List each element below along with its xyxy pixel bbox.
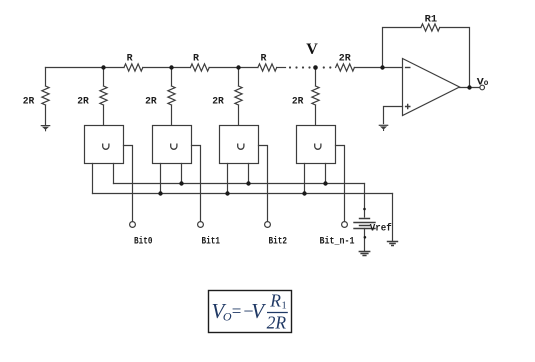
wire box left bottom pin x=238.5 xyxy=(227,164,229,194)
wire box left bottom pin x=315.5 xyxy=(304,164,306,194)
op-amp U1 triangle xyxy=(403,59,460,116)
battery bottom pin dot xyxy=(364,236,367,239)
junction upper bus box4 pin xyxy=(323,181,327,185)
op-amp plus symbol xyxy=(406,104,410,108)
wire node branch drop x=238.5 xyxy=(238,68,240,87)
resistor 2R at x=103.5 xyxy=(100,86,107,105)
ground (arrow) under leftmost 2R xyxy=(41,125,51,131)
wire 2R to switch box x=103.5 xyxy=(103,105,105,126)
svg-text:2R: 2R xyxy=(145,96,157,107)
node output xyxy=(467,85,471,89)
svg-text:Bit1: Bit1 xyxy=(202,235,221,247)
terminal circle Vo xyxy=(480,85,485,90)
ground (3-bar) right of battery xyxy=(388,242,398,246)
wire upper bus (to Vref) xyxy=(114,183,365,185)
svg-text:o: o xyxy=(484,79,489,88)
wire node branch drop x=315.5 xyxy=(315,68,317,87)
wire box left bottom pin x=171.5 xyxy=(160,164,162,194)
wire left 2R to ground xyxy=(45,105,47,124)
wire box right bottom pin x=103.5 xyxy=(113,164,115,184)
svg-text:Vref: Vref xyxy=(370,223,392,235)
junction upper bus box2 pin xyxy=(179,181,183,185)
node V xyxy=(313,65,318,70)
switch box glyph (rotated C) x=171.5 xyxy=(171,144,177,149)
wire box left bottom pin x=103.5 xyxy=(92,164,94,194)
wire dotted continuation left of node V xyxy=(289,66,311,68)
svg-text:R1: R1 xyxy=(425,14,438,25)
svg-text:2R: 2R xyxy=(212,96,224,107)
wire left branch drop xyxy=(45,68,47,87)
wire 2R to switch box x=238.5 xyxy=(238,105,240,126)
wire box side pin to bit terminal x=315.5 xyxy=(336,146,345,222)
junction upper bus box3 pin xyxy=(246,181,250,185)
wire rail node2 to node3 xyxy=(209,67,258,69)
junction lower bus box3 pin xyxy=(225,191,229,195)
wire rail to op-amp inverting input xyxy=(354,67,402,69)
wire 2R to switch box x=171.5 xyxy=(171,105,173,126)
svg-text:2R: 2R xyxy=(267,312,287,332)
svg-text:=: = xyxy=(232,301,242,320)
wire rail stub before dotted gap xyxy=(277,67,286,69)
resistor R (first series) xyxy=(124,64,143,71)
resistor 2R at x=238.5 xyxy=(235,86,242,105)
node ladder-1 xyxy=(101,65,105,69)
wire lower bus (to right ground) xyxy=(93,193,393,195)
wire node branch drop x=103.5 xyxy=(103,68,105,87)
resistor 2R at x=171.5 xyxy=(168,86,175,105)
resistor 2R at x=315.5 xyxy=(312,86,319,105)
svg-text:Bit0: Bit0 xyxy=(134,235,153,247)
ground (arrow) at op-amp plus input xyxy=(379,125,389,131)
svg-text:V: V xyxy=(477,78,484,89)
svg-text:2R: 2R xyxy=(292,96,304,107)
wire main rail left segment xyxy=(46,67,125,69)
terminal circle Bit2 xyxy=(265,222,271,228)
switch box glyph (rotated C) x=103.5 xyxy=(103,144,109,149)
switch box glyph (rotated C) x=238.5 xyxy=(238,144,244,149)
wire box right bottom pin x=238.5 xyxy=(248,164,250,184)
wire feedback top right and down xyxy=(440,28,470,88)
ground (3-bar) under battery xyxy=(359,252,369,256)
wire node branch drop x=171.5 xyxy=(171,68,173,87)
formula box border xyxy=(209,291,292,333)
wire battery to ground xyxy=(364,229,366,251)
wire op-amp output xyxy=(460,87,480,89)
wire lower bus down to right ground xyxy=(392,194,394,241)
node ladder-3 xyxy=(236,65,240,69)
svg-text:1: 1 xyxy=(282,301,287,312)
node op-amp inverting input xyxy=(380,65,384,69)
svg-text:2R: 2R xyxy=(77,96,89,107)
wire feedback up and left top xyxy=(383,28,421,68)
wire 2R to switch box x=315.5 xyxy=(315,105,317,126)
svg-text:V: V xyxy=(251,299,266,323)
svg-text:O: O xyxy=(223,310,232,324)
switch box glyph (rotated C) x=315.5 xyxy=(315,144,321,149)
terminal circle Bit0 xyxy=(130,222,136,228)
svg-text:R: R xyxy=(269,290,281,310)
svg-text:Bit2: Bit2 xyxy=(269,235,288,247)
wire upper bus down to battery xyxy=(364,184,366,218)
wire box side pin to bit terminal x=171.5 xyxy=(192,146,201,222)
battery Vref plates xyxy=(354,219,375,229)
formula fraction bar xyxy=(267,312,288,314)
switch box at x=103.5 xyxy=(85,126,124,164)
wire rail node1 to node2 xyxy=(143,67,191,69)
switch box at x=238.5 xyxy=(220,126,259,164)
svg-text:2R: 2R xyxy=(23,96,35,107)
svg-text:R: R xyxy=(193,53,199,64)
resistor 2R series to op-amp xyxy=(336,64,355,71)
switch box at x=315.5 xyxy=(297,126,336,164)
wire box side pin to bit terminal x=103.5 xyxy=(124,146,133,222)
svg-text:Bit_n-1: Bit_n-1 xyxy=(320,235,355,247)
junction lower bus box2 pin xyxy=(158,191,162,195)
op-amp minus symbol xyxy=(406,67,410,69)
wire box right bottom pin x=171.5 xyxy=(181,164,183,184)
resistor R (third series) xyxy=(258,64,277,71)
resistor R (second series) xyxy=(190,64,209,71)
svg-text:2R: 2R xyxy=(339,53,351,64)
svg-text:R: R xyxy=(261,53,267,64)
terminal circle Bit1 xyxy=(198,222,204,228)
wire op-amp plus input to ground xyxy=(384,107,403,124)
battery top pin dot xyxy=(363,208,366,211)
junction lower bus box4 pin xyxy=(302,191,306,195)
svg-text:V: V xyxy=(306,41,318,58)
wire box right bottom pin x=315.5 xyxy=(325,164,327,184)
wire dotted continuation right of node V xyxy=(323,66,332,68)
resistor 2R leftmost xyxy=(42,86,49,105)
resistor R1 feedback xyxy=(421,24,440,31)
terminal circle Bit_n-1 xyxy=(342,222,348,228)
node ladder-2 xyxy=(169,65,173,69)
svg-text:R: R xyxy=(127,53,133,64)
switch box at x=171.5 xyxy=(153,126,192,164)
wire box side pin to bit terminal x=238.5 xyxy=(259,146,268,222)
